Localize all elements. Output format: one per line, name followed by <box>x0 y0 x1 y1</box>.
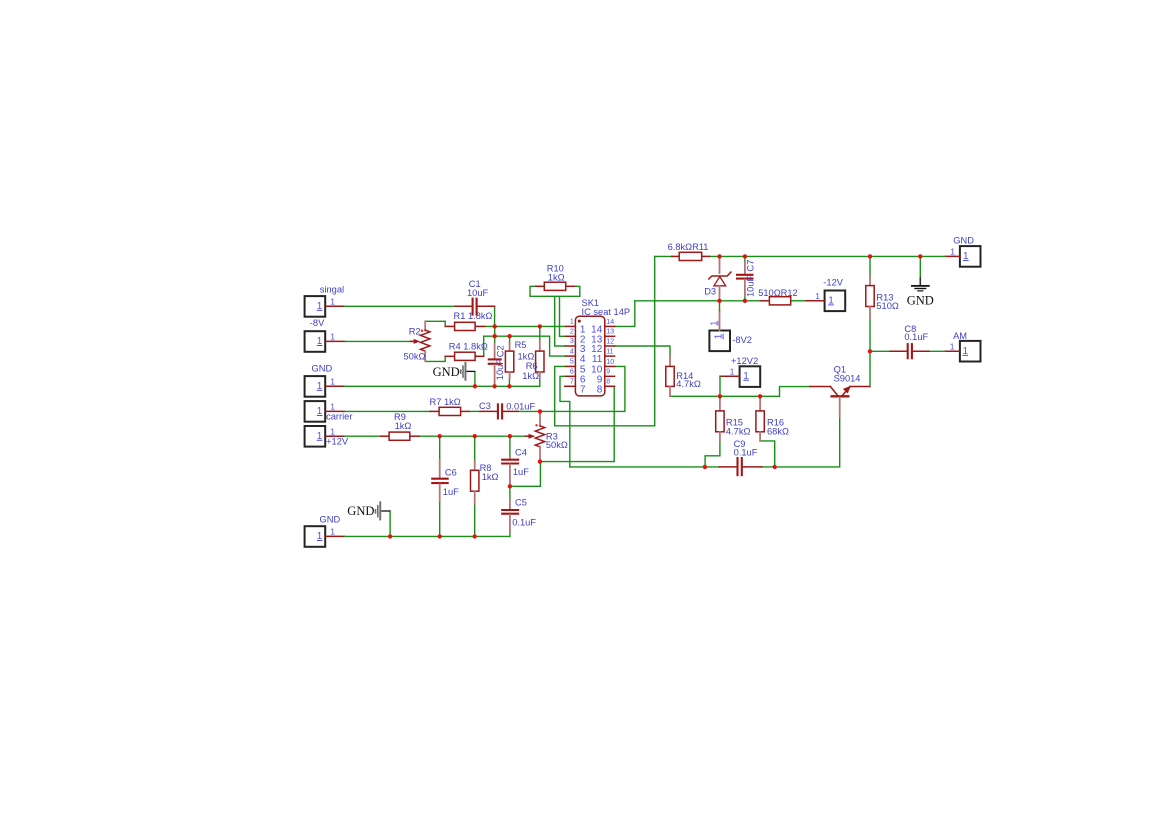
SK1 pin 1 <box>566 325 576 327</box>
svg-text:R6: R6 <box>526 361 538 371</box>
capacitor C4 <box>501 448 529 485</box>
svg-text:10uF: 10uF <box>745 275 755 297</box>
wire R2 top loop to R1 <box>425 321 445 330</box>
svg-text:+12V: +12V <box>326 437 349 447</box>
ground symbol GND bottom <box>347 501 390 520</box>
svg-text:C6: C6 <box>445 468 457 478</box>
capacitor C5 <box>501 498 536 532</box>
svg-text:-8V: -8V <box>310 318 325 328</box>
ground symbol GND left <box>433 362 476 381</box>
svg-text:12: 12 <box>606 338 614 345</box>
svg-text:1: 1 <box>743 371 749 382</box>
port AM <box>945 331 981 362</box>
wire SK1 pin 12 to R14 top <box>615 346 670 356</box>
resistor R4 <box>445 341 488 360</box>
wire R9 to R3 wiper <box>419 435 525 437</box>
svg-text:50kΩ: 50kΩ <box>546 440 568 450</box>
svg-text:13: 13 <box>606 329 614 336</box>
wire D3 below junction <box>719 301 721 311</box>
SK1 pin 5 <box>566 365 576 367</box>
port +12V2 <box>720 356 760 387</box>
port singal <box>305 285 345 317</box>
SK1 pin 13 <box>605 335 615 337</box>
svg-text:GND: GND <box>907 293 934 307</box>
svg-text:S9014: S9014 <box>834 374 861 384</box>
potentiometer R2 <box>404 321 430 361</box>
wire carrier to R7 <box>345 410 430 412</box>
wire GND rail left <box>345 378 540 387</box>
svg-text:1: 1 <box>330 297 335 307</box>
svg-text:1: 1 <box>815 291 820 301</box>
wire singal to C1 <box>345 305 455 307</box>
wire R16 bottom jog <box>760 441 775 467</box>
svg-text:carrier: carrier <box>326 412 352 422</box>
wire ground symbol 2 drop <box>389 511 391 536</box>
wire pin1 line R1 to SK1 pin 1 <box>485 325 566 327</box>
svg-text:1: 1 <box>317 301 323 312</box>
svg-text:14: 14 <box>606 319 614 326</box>
SK1 pin 12 <box>605 345 615 347</box>
wire C5 bottom to rail <box>509 531 511 536</box>
svg-text:R5: R5 <box>515 340 527 350</box>
wire +12V to R9 <box>345 435 381 437</box>
svg-text:C2: C2 <box>495 345 505 357</box>
svg-text:1kΩ: 1kΩ <box>522 371 539 381</box>
svg-text:7: 7 <box>580 384 586 395</box>
resistor R15 <box>716 396 751 441</box>
wire R11 left long riser <box>654 256 656 425</box>
resistor R8 <box>471 461 499 504</box>
wire horizontal row to R11 riser <box>555 425 655 427</box>
svg-text:1: 1 <box>330 426 335 436</box>
svg-text:1: 1 <box>330 402 335 412</box>
resistor R11 <box>668 242 710 261</box>
svg-text:+12V2: +12V2 <box>731 356 758 366</box>
wire C4 top <box>509 436 511 456</box>
wire -8V to R2 wiper <box>345 340 411 342</box>
SK1 pin 3 <box>566 345 576 347</box>
svg-text:1kΩ: 1kΩ <box>482 472 499 482</box>
svg-text:singal: singal <box>320 285 344 295</box>
capacitor C8 <box>890 324 929 359</box>
port -8V <box>305 318 345 352</box>
SK1 pin 8 <box>605 385 615 387</box>
wire C2 bottom to rail <box>494 382 496 386</box>
resistor R6 <box>522 341 544 381</box>
wire R3 top stub <box>539 411 541 413</box>
wire SK1 pin 5 down <box>555 366 566 425</box>
svg-text:10: 10 <box>606 359 614 366</box>
junction dots <box>388 254 923 538</box>
wire +12V2 drop <box>719 376 721 396</box>
svg-text:AM: AM <box>953 331 967 341</box>
svg-text:1: 1 <box>317 431 323 442</box>
port -8V2 <box>708 311 752 352</box>
SK1 pin 4 <box>566 355 576 357</box>
svg-text:0.1uF: 0.1uF <box>904 332 928 342</box>
svg-text:1: 1 <box>570 319 574 326</box>
wire node A vertical between dots <box>494 326 496 343</box>
svg-text:GND: GND <box>312 364 333 374</box>
wire C5 top <box>509 486 511 499</box>
svg-text:GND: GND <box>320 514 341 524</box>
wire C7 top stub <box>744 256 746 262</box>
wire R8 top <box>474 436 476 461</box>
SK1 pin 2 <box>566 335 576 337</box>
resistor R14 <box>666 356 701 397</box>
zener diode D3 <box>704 259 731 301</box>
svg-text:1: 1 <box>714 333 725 339</box>
svg-text:4.7kΩ: 4.7kΩ <box>676 379 701 389</box>
svg-text:0.01uF: 0.01uF <box>506 401 535 411</box>
svg-text:1: 1 <box>317 381 323 392</box>
wire C8 to AM port <box>929 350 945 352</box>
wire R8 bottom <box>474 504 476 537</box>
svg-text:C7: C7 <box>746 260 756 272</box>
SK1 pin 14 <box>605 325 615 327</box>
capacitor C2 <box>488 344 506 383</box>
svg-text:6.8kΩR11: 6.8kΩR11 <box>668 242 709 252</box>
svg-text:8: 8 <box>606 379 610 386</box>
svg-text:1: 1 <box>963 346 969 357</box>
wire D3 row <box>635 300 761 302</box>
svg-text:1: 1 <box>730 367 735 377</box>
svg-text:1kΩ: 1kΩ <box>395 421 412 431</box>
wire bottom GND rail <box>345 535 510 537</box>
wire C1 right drop to pin1 node <box>494 306 496 326</box>
capacitor C9 <box>720 439 762 476</box>
wire C4 bottom link to R3 bottom <box>510 462 541 487</box>
wire SK1 pin 14 riser <box>615 301 635 327</box>
svg-text:9: 9 <box>606 369 610 376</box>
SK1 pin 7 <box>565 385 576 387</box>
svg-text:1: 1 <box>330 527 335 537</box>
transistor Q1 <box>810 365 870 417</box>
svg-text:1kΩ: 1kΩ <box>548 273 565 283</box>
wire R2 bottom loop to R4 <box>425 356 445 361</box>
wire earth ground drop <box>919 256 921 277</box>
wire pin2 riser to R10 loop <box>560 296 566 336</box>
svg-text:7: 7 <box>570 379 574 386</box>
SK1 pin 11 <box>605 355 615 357</box>
wire C7 bottom stub <box>744 295 746 301</box>
wire node to R6 top <box>539 326 541 341</box>
wire R15 bottom jog <box>705 441 720 467</box>
port carrier <box>305 401 353 422</box>
wire R3 bottom to SK1 pin 8 <box>540 386 614 461</box>
svg-text:4: 4 <box>570 348 574 355</box>
svg-text:1: 1 <box>950 247 955 257</box>
svg-text:510ΩR12: 510ΩR12 <box>758 288 798 298</box>
svg-text:1: 1 <box>317 531 323 542</box>
svg-text:R7 1kΩ: R7 1kΩ <box>430 397 461 407</box>
svg-text:10uF: 10uF <box>467 288 489 298</box>
SK1 pin 9 <box>605 375 615 377</box>
earth ground symbol top right <box>907 277 934 307</box>
wire C6 top <box>439 436 441 460</box>
svg-text:68kΩ: 68kΩ <box>767 427 789 437</box>
wire SK1 pin 6 to C9 rail <box>560 376 570 467</box>
svg-text:1: 1 <box>330 332 335 342</box>
svg-text:1: 1 <box>828 295 834 306</box>
svg-text:IC seat 14P: IC seat 14P <box>582 307 631 317</box>
SK1 pin 10 <box>605 365 615 367</box>
resistor R12 <box>758 288 798 305</box>
svg-text:1: 1 <box>330 377 335 387</box>
port -12V <box>805 278 845 312</box>
wire R12 right <box>791 300 805 302</box>
wire C3 to R3 node and pin10 <box>518 366 625 411</box>
svg-text:8: 8 <box>597 384 603 395</box>
svg-text:1: 1 <box>708 321 718 326</box>
resistor R7 <box>430 397 469 416</box>
svg-text:510Ω: 510Ω <box>876 301 899 311</box>
svg-text:1: 1 <box>317 336 323 347</box>
svg-text:1: 1 <box>317 406 323 417</box>
resistor R5 <box>505 336 534 379</box>
wire AM node to C8 <box>870 350 890 352</box>
wire C6 bottom <box>439 501 441 537</box>
svg-text:D3: D3 <box>704 286 716 296</box>
svg-text:1: 1 <box>950 342 955 352</box>
svg-text:C5: C5 <box>515 498 527 508</box>
wire R13 bottom to AM node and Q1 emitter <box>869 318 871 387</box>
svg-text:1: 1 <box>963 251 969 262</box>
svg-text:1uF: 1uF <box>443 487 459 497</box>
wire top rail right segment <box>710 255 946 257</box>
wire R13 top <box>869 256 871 275</box>
resistor R9 <box>381 412 420 440</box>
wire R10 loop <box>530 286 580 296</box>
wire R5 bottom to rail <box>508 379 510 387</box>
resistor R1 <box>445 311 492 330</box>
svg-text:C3: C3 <box>479 401 491 411</box>
svg-text:10uF: 10uF <box>495 359 505 381</box>
svg-text:5: 5 <box>570 359 574 366</box>
svg-text:R2: R2 <box>409 327 421 337</box>
svg-text:-12V: -12V <box>823 278 843 288</box>
wire ground symbol drop <box>474 372 476 387</box>
svg-text:2: 2 <box>570 329 574 336</box>
capacitor C1 <box>455 279 495 316</box>
svg-text:3: 3 <box>570 338 574 345</box>
svg-text:C4: C4 <box>515 448 527 458</box>
port GND left <box>305 364 345 397</box>
svg-text:GND: GND <box>953 235 974 245</box>
SK1 pin 6 <box>566 375 576 377</box>
svg-text:-8V2: -8V2 <box>732 335 752 345</box>
svg-text:0.1uF: 0.1uF <box>734 448 758 458</box>
wire C9 rail <box>570 466 720 468</box>
capacitor C7 <box>736 260 756 297</box>
svg-text:6: 6 <box>570 369 574 376</box>
svg-text:0.1uF: 0.1uF <box>512 518 536 528</box>
capacitor C6 <box>431 460 459 501</box>
wire R4 right riser <box>484 336 566 356</box>
wire pin3 riser to R10 loop <box>555 296 566 346</box>
potentiometer R3 <box>525 413 567 459</box>
resistor R16 <box>756 396 789 441</box>
svg-text:11: 11 <box>606 349 613 356</box>
svg-text:GND: GND <box>433 365 460 379</box>
wire top rail left segment <box>655 255 672 257</box>
resistor R10 <box>536 264 575 291</box>
svg-text:4.7kΩ: 4.7kΩ <box>726 426 751 436</box>
resistor R13 <box>866 275 899 318</box>
svg-text:50kΩ: 50kΩ <box>404 351 426 361</box>
capacitor C3 <box>479 401 535 420</box>
IC socket SK1 <box>565 298 630 396</box>
wire bias rail R14 to Q1 <box>670 387 810 397</box>
svg-text:1uF: 1uF <box>513 467 529 477</box>
svg-text:GND: GND <box>347 504 374 518</box>
port GND bottom <box>305 514 345 547</box>
svg-text:R4 1.8kΩ: R4 1.8kΩ <box>449 341 488 351</box>
port GND top-right <box>945 235 980 266</box>
port +12V <box>305 426 349 447</box>
wire R7 to C3 <box>469 410 480 412</box>
